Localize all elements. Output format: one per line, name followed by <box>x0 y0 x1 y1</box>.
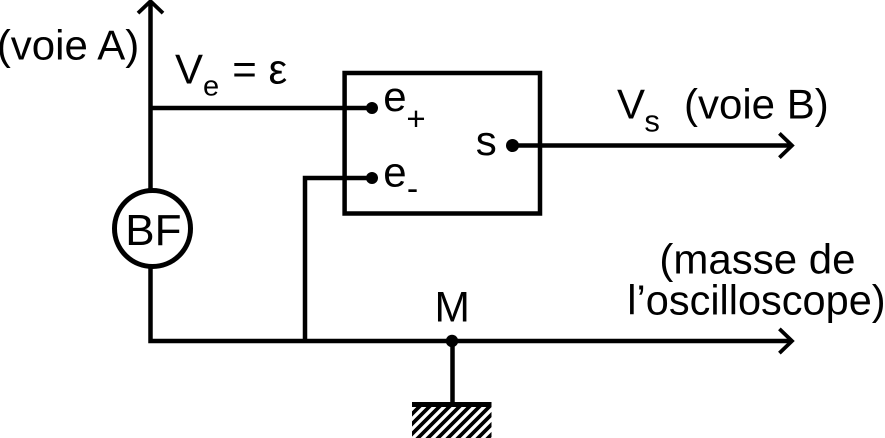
svg-text:(voie B): (voie B) <box>684 81 829 128</box>
svg-text:e: e <box>383 73 406 120</box>
svg-text:s: s <box>644 104 660 139</box>
svg-text:M: M <box>435 284 470 331</box>
svg-text:(voie A): (voie A) <box>0 22 139 69</box>
svg-text:= ε: = ε <box>232 45 287 92</box>
svg-text:+: + <box>406 100 425 137</box>
svg-text:-: - <box>407 170 418 208</box>
svg-text:V: V <box>175 45 203 92</box>
svg-text:BF: BF <box>125 206 181 255</box>
svg-text:e: e <box>203 71 219 103</box>
svg-text:V: V <box>617 81 645 128</box>
svg-text:l’oscilloscope): l’oscilloscope) <box>627 277 885 324</box>
svg-text:s: s <box>476 117 497 164</box>
svg-text:e: e <box>383 148 406 195</box>
